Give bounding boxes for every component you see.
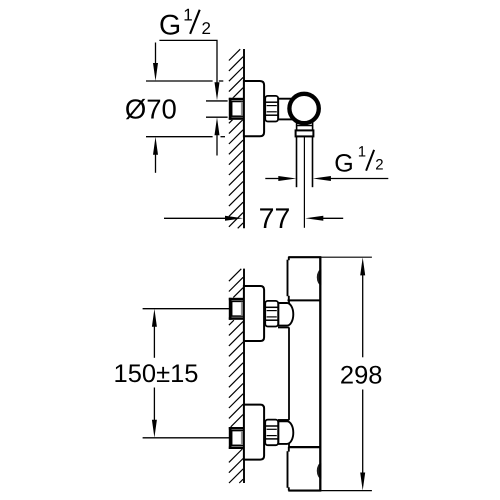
298 dimension: [321, 257, 382, 490]
concealed union square (top view): [228, 98, 244, 120]
wall escutcheon O70 (top view, side): [244, 81, 264, 136]
wall surface line (bottom view): [243, 269, 245, 483]
svg-text:298: 298: [340, 361, 383, 389]
G1/2 leader line (top left): [159, 40, 219, 155]
svg-text:150±15: 150±15: [114, 360, 199, 388]
upper handle screw half-ellipse: [317, 269, 322, 285]
union nut (top view): [265, 96, 278, 122]
svg-text:1: 1: [183, 5, 192, 24]
label G 1/2 (top left): [159, 5, 211, 41]
lower inlet dome: [278, 420, 293, 444]
thermostat bar top edge: [288, 257, 322, 301]
lower handle screw half-ellipse: [317, 463, 322, 479]
svg-text:2: 2: [375, 157, 383, 174]
bar right edge: [319, 257, 321, 490]
lower escutcheon: [244, 405, 264, 460]
connector between nut and valve body: [278, 99, 297, 120]
bottom cap separation line: [289, 446, 320, 448]
outlet collar ring: [296, 130, 314, 136]
upper concealed union square: [228, 298, 244, 320]
O70 dimension: [125, 43, 225, 173]
svg-text:Ø70: Ø70: [125, 94, 177, 125]
upper inlet dome: [278, 303, 293, 328]
lower union nut: [265, 420, 278, 446]
lower concealed union square: [228, 427, 244, 449]
svg-text:G: G: [159, 10, 181, 42]
label G 1/2 (right): [334, 143, 383, 177]
upper escutcheon: [244, 286, 264, 341]
svg-text:G: G: [334, 150, 353, 178]
G1/2 dimension arrows at pipe: [265, 176, 388, 181]
svg-text:1: 1: [358, 143, 366, 160]
svg-text:77: 77: [259, 203, 291, 235]
shower hose outlet pipe: [297, 136, 313, 187]
valve body circle (top view): [289, 94, 318, 123]
thermostat bar bottom edge: [288, 447, 322, 491]
G1/2 inlet pipe behind wall (top view): [206, 101, 230, 117]
bar left edge (middle): [288, 300, 290, 447]
outlet neck under valve body: [297, 123, 313, 131]
top cap separation line: [288, 299, 321, 301]
wall surface line (top view): [243, 49, 245, 228]
svg-text:2: 2: [202, 19, 211, 38]
wall hatching (top view): [229, 49, 243, 228]
outlet pipe centerline: [303, 136, 305, 227]
77 dimension: [164, 203, 343, 235]
wall hatching (bottom view): [229, 269, 243, 483]
upper union nut: [265, 301, 278, 327]
150+-15 dimension: [114, 309, 229, 438]
